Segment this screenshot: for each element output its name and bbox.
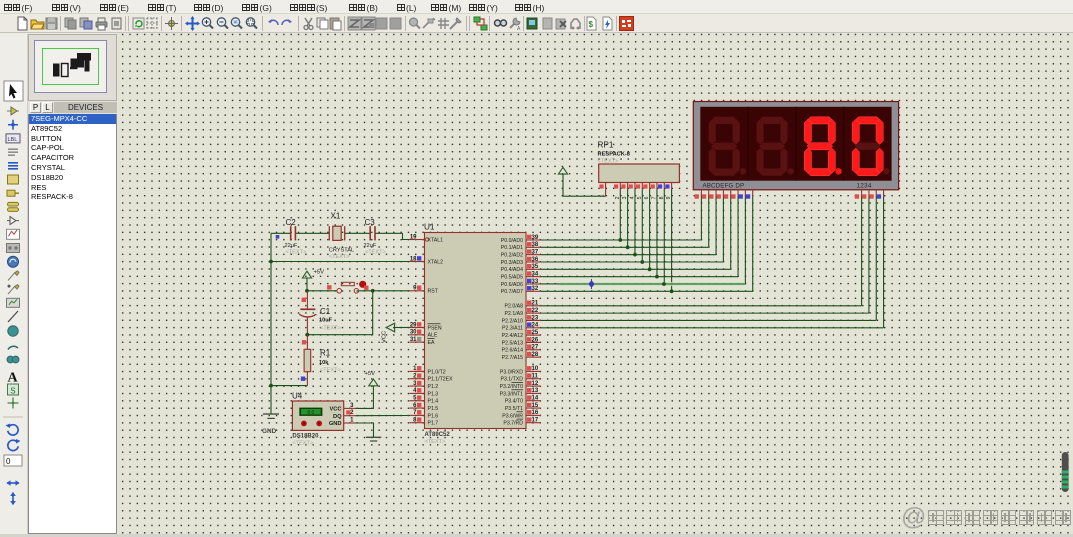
- svg-text:39: 39: [532, 235, 539, 241]
- pin 1 RP1 stub: [599, 183, 606, 198]
- pin 21 U1 right stub: [526, 301, 541, 307]
- pin 3 U4 VCC stub: [344, 403, 356, 409]
- svg-text:PSEN: PSEN: [428, 325, 442, 331]
- pin 23 U1 right stub: [526, 315, 541, 321]
- pin 2 U1 left stub: [410, 373, 425, 379]
- svg-text:P2.0/A8: P2.0/A8: [505, 304, 524, 310]
- svg-text:P3.5/T1: P3.5/T1: [505, 406, 523, 412]
- 7-segment display 7SEG-MPX4-CC frame: [693, 102, 898, 190]
- pin 13 U1 right stub: [526, 388, 541, 394]
- svg-text:S: S: [10, 386, 15, 395]
- svg-text:P1.0/T2: P1.0/T2: [428, 369, 446, 375]
- pin C display stub: [709, 190, 716, 199]
- svg-text:22uF: 22uF: [285, 243, 298, 249]
- junction RP1 pin9/P0.7: [670, 289, 674, 293]
- pin 14 U1 right stub: [526, 395, 541, 401]
- svg-text:R1: R1: [320, 349, 331, 358]
- svg-text:34: 34: [532, 271, 539, 277]
- pin 6 U1 left stub: [410, 403, 425, 409]
- svg-text:P0.2/AD2: P0.2/AD2: [501, 253, 523, 259]
- resistor pack RP1 RESPACK-8 body: [598, 141, 680, 183]
- pin 16 U1 right stub: [526, 410, 541, 416]
- junction RP1 pin2/P0.0: [618, 238, 622, 242]
- pin 2 U4 DQ stub: [344, 410, 356, 416]
- pin 27 U1 right stub: [526, 344, 541, 350]
- capacitor C1 polarized: [299, 291, 341, 335]
- svg-text:37: 37: [532, 249, 539, 255]
- junction RP1 pin3/P0.1: [626, 245, 630, 249]
- pin 33 U1 right stub: [526, 279, 541, 285]
- wire P0.3 net to segment D: [541, 190, 723, 262]
- wire RST net: [307, 290, 410, 292]
- wire P2.3 net to digit 4: [541, 197, 884, 328]
- pin B display stub: [702, 190, 709, 199]
- svg-text:12: 12: [532, 381, 539, 387]
- svg-text:P1.1/T2EX: P1.1/T2EX: [428, 377, 454, 383]
- wire XTAL1 net: [271, 233, 410, 239]
- svg-text:A: A: [8, 371, 19, 386]
- svg-text:1234: 1234: [857, 183, 873, 190]
- svg-text:27: 27: [532, 345, 539, 351]
- wire U4 GND down: [356, 423, 374, 437]
- pin digit1 display stub: [855, 190, 862, 199]
- svg-text:10: 10: [532, 366, 539, 372]
- pin E display stub: [724, 190, 731, 199]
- junction RP1 pin7/P0.5: [655, 275, 659, 279]
- svg-text:24: 24: [532, 323, 539, 329]
- svg-text:38: 38: [532, 242, 539, 248]
- svg-text:35: 35: [532, 264, 539, 270]
- svg-text:0: 0: [6, 457, 11, 466]
- pin digit2 display stub: [862, 190, 869, 199]
- wire P2.1 net to digit 2: [541, 197, 869, 314]
- svg-text:ABCDEFG DP: ABCDEFG DP: [703, 183, 745, 190]
- svg-text:<TEXT>: <TEXT>: [320, 368, 341, 374]
- svg-text:+5V: +5V: [314, 270, 325, 276]
- component capsule right edge: [1062, 452, 1069, 492]
- svg-text:P2.1/A9: P2.1/A9: [505, 311, 524, 317]
- svg-text:P3.1/TXD: P3.1/TXD: [501, 377, 524, 383]
- svg-text:10uF: 10uF: [319, 317, 333, 323]
- pin 5 RP1 stub: [636, 183, 643, 200]
- svg-text:RST: RST: [428, 289, 439, 295]
- pin 22 U1 right stub: [526, 308, 541, 314]
- svg-text:U4: U4: [292, 392, 303, 401]
- svg-text:22: 22: [532, 308, 539, 314]
- pin 18 U1 left stub: [410, 256, 425, 262]
- svg-text:LBL: LBL: [8, 137, 18, 143]
- pin 35 U1 right stub: [526, 264, 541, 270]
- wire +5V to RP1 pin1: [563, 174, 606, 196]
- pin names U1 left: [425, 237, 453, 426]
- svg-text:<TEXT>: <TEXT>: [365, 250, 386, 256]
- svg-text:U1: U1: [424, 223, 435, 232]
- node drag-handle marker on P0.6 wire: [560, 279, 745, 289]
- pin 4 RP1 stub: [629, 183, 636, 200]
- svg-text:EA: EA: [428, 340, 435, 346]
- pin 32 U1 right stub: [526, 286, 541, 292]
- junction C1/R1/branch: [306, 333, 310, 337]
- svg-text:$: $: [588, 20, 593, 29]
- wire P0.7 net to segment DP: [541, 190, 753, 292]
- pin 25 U1 right stub: [526, 330, 541, 336]
- svg-text:P3.3/INT1: P3.3/INT1: [500, 391, 523, 397]
- svg-text:18: 18: [410, 256, 417, 262]
- wire P0.1 net to segment B: [541, 190, 709, 248]
- pin 2 RP1 stub: [614, 183, 621, 200]
- junction rail/R1 bottom: [269, 384, 273, 388]
- svg-text:X1: X1: [331, 212, 341, 221]
- junction RP1 pin6/P0.4: [648, 267, 652, 271]
- pin 3 U1 left stub: [410, 381, 425, 387]
- svg-text:P2.2/A10: P2.2/A10: [502, 318, 523, 324]
- crystal X1: [329, 212, 354, 261]
- junction rail/XTAL2: [269, 260, 273, 264]
- svg-text:14: 14: [532, 396, 539, 402]
- pin digit4 display stub: [877, 190, 884, 199]
- pin 1 U4 GND stub: [344, 418, 356, 424]
- svg-text:P1.7: P1.7: [428, 421, 439, 427]
- svg-text:VCC: VCC: [329, 407, 341, 413]
- pin 11 U1 right stub: [526, 373, 541, 379]
- pin 10 U1 right stub: [526, 366, 541, 372]
- svg-text:33: 33: [532, 279, 539, 285]
- svg-text:A: A: [517, 26, 521, 31]
- pin digit3 display stub: [869, 190, 876, 199]
- wire P2.0 net to digit 1: [541, 197, 862, 306]
- svg-text:VCC: VCC: [382, 331, 388, 343]
- svg-text:P0.0/AD0: P0.0/AD0: [501, 238, 523, 244]
- svg-text:17: 17: [532, 418, 539, 424]
- pin 39 U1 right stub: [526, 235, 541, 241]
- junction RP1 pin4/P0.2: [633, 253, 637, 257]
- svg-text:28: 28: [532, 352, 539, 358]
- svg-text:P3.6/WR: P3.6/WR: [502, 413, 523, 419]
- svg-text:DQ: DQ: [333, 414, 342, 420]
- svg-text:22uF: 22uF: [364, 243, 377, 249]
- svg-text:P3.2/INT0: P3.2/INT0: [500, 384, 523, 390]
- svg-text:16: 16: [532, 410, 539, 416]
- wire R1 bottom to rail: [271, 385, 307, 387]
- svg-text:36: 36: [532, 257, 539, 263]
- svg-text:GND: GND: [262, 428, 277, 435]
- power VCC to pin 29: [382, 323, 410, 343]
- svg-text:P0.4/AD4: P0.4/AD4: [501, 267, 523, 273]
- svg-text:AT89C52: AT89C52: [425, 432, 451, 438]
- svg-text:C2: C2: [286, 218, 297, 227]
- pin A display stub: [695, 190, 702, 199]
- svg-text:13: 13: [532, 388, 539, 394]
- pin 6 RP1 stub: [643, 183, 650, 200]
- wire P0.2 net to segment C: [541, 190, 716, 255]
- IC U4 DS18B20 temperature sensor: [292, 392, 344, 447]
- pin 15 U1 right stub: [526, 403, 541, 409]
- pin 8 RP1 stub: [658, 183, 665, 200]
- svg-text:P1.5: P1.5: [428, 406, 439, 412]
- ground GND under U4: [366, 437, 381, 441]
- svg-text:P0.3/AD3: P0.3/AD3: [501, 260, 523, 266]
- svg-text:8.0: 8.0: [307, 410, 314, 416]
- svg-text:P3.0/RXD: P3.0/RXD: [500, 369, 523, 375]
- svg-text:<TEXT>: <TEXT>: [598, 159, 619, 165]
- svg-text:XTAL2: XTAL2: [428, 259, 444, 265]
- pin 7 U1 left stub: [410, 410, 425, 416]
- svg-text:XTAL1: XTAL1: [428, 237, 444, 243]
- svg-text:ALE: ALE: [428, 333, 438, 339]
- svg-text:19: 19: [410, 234, 417, 240]
- pin 9 RP1 stub: [665, 183, 672, 200]
- svg-text:RP1: RP1: [598, 141, 614, 150]
- pin 12 U1 right stub: [526, 381, 541, 387]
- svg-text:<TEXT>: <TEXT>: [320, 325, 341, 331]
- svg-text:P1.4: P1.4: [428, 399, 439, 405]
- svg-text:30: 30: [410, 330, 417, 336]
- svg-text:<TEXT>: <TEXT>: [292, 440, 313, 446]
- junction RP1 pin8/P0.6: [662, 282, 666, 286]
- resistor R1: [301, 335, 341, 386]
- wire P0.6 net to segment G: [541, 190, 745, 284]
- wire XTAL2 net: [271, 261, 410, 263]
- svg-text:RESPACK-8: RESPACK-8: [598, 152, 630, 158]
- pin 5 U1 left stub: [410, 395, 425, 401]
- wire P0.0 net to segment A: [541, 190, 701, 241]
- pin 1 U1 left stub: [410, 366, 425, 372]
- pin G display stub: [738, 190, 745, 199]
- svg-text:<TEXT>: <TEXT>: [329, 254, 350, 260]
- svg-text:<TEXT>: <TEXT>: [425, 439, 446, 445]
- svg-text:10k: 10k: [319, 360, 329, 366]
- svg-text:P1.3: P1.3: [428, 391, 439, 397]
- pin 19 U1 left stub: [410, 234, 425, 240]
- svg-text:C3: C3: [365, 218, 376, 227]
- power +5V above RST branch: [302, 270, 324, 291]
- svg-text:P3.7/RD: P3.7/RD: [503, 421, 523, 427]
- pin 28 U1 right stub: [526, 352, 541, 358]
- pin DP display stub: [746, 190, 753, 199]
- svg-text:P0.6/AD6: P0.6/AD6: [501, 282, 523, 288]
- svg-text:32: 32: [532, 286, 539, 292]
- junction +5V/RST: [305, 289, 309, 293]
- button (reset push button): [327, 281, 368, 293]
- svg-text:25: 25: [532, 330, 539, 336]
- pin 38 U1 right stub: [526, 242, 541, 248]
- svg-text:31: 31: [410, 337, 417, 343]
- pin F display stub: [731, 190, 738, 199]
- IC U1 AT89C52 microcontroller body: [424, 223, 526, 446]
- svg-text:CRYSTAL: CRYSTAL: [329, 248, 354, 254]
- pin 24 U1 right stub: [526, 322, 541, 328]
- svg-text:21: 21: [532, 301, 539, 307]
- svg-text:P2.6/A14: P2.6/A14: [502, 348, 523, 354]
- pin 7 RP1 stub: [651, 183, 658, 200]
- svg-text:23: 23: [532, 315, 539, 321]
- node blue marker near C2: [276, 235, 280, 239]
- pin 26 U1 right stub: [526, 337, 541, 343]
- 7-seg digit 4: [852, 117, 889, 176]
- pin 8 U1 left stub: [410, 417, 425, 423]
- svg-text:+5V: +5V: [365, 371, 376, 377]
- svg-text:11: 11: [532, 374, 539, 380]
- svg-text:P2.4/A12: P2.4/A12: [502, 333, 523, 339]
- pin 31 U1 left stub: [410, 337, 425, 343]
- pin D display stub: [716, 190, 723, 199]
- svg-text:P2.7/A15: P2.7/A15: [502, 355, 523, 361]
- svg-text:P2.5/A13: P2.5/A13: [502, 340, 523, 346]
- ground GND left: [262, 414, 279, 435]
- svg-text:P2.3/A11: P2.3/A11: [502, 326, 523, 332]
- pin names U1 right: [500, 238, 524, 427]
- power +5V above U4: [365, 371, 379, 386]
- junction RP1 pin5/P0.3: [640, 260, 644, 264]
- pin 4 U1 left stub: [410, 388, 425, 394]
- wire P0.5 net to segment F: [541, 190, 738, 277]
- pin 37 U1 right stub: [526, 249, 541, 255]
- pin 34 U1 right stub: [526, 271, 541, 277]
- svg-text:C1: C1: [320, 307, 331, 316]
- pin 36 U1 right stub: [526, 257, 541, 263]
- 7-seg digit 2: [756, 117, 793, 176]
- svg-text:P0.7/AD7: P0.7/AD7: [501, 289, 523, 295]
- svg-text:P0.5/AD5: P0.5/AD5: [501, 275, 523, 281]
- capacitor C3: [364, 218, 386, 256]
- svg-text:GND: GND: [329, 421, 342, 427]
- junction RST/down branch: [371, 289, 375, 293]
- svg-text:26: 26: [532, 337, 539, 343]
- capacitor C2: [285, 218, 307, 256]
- 7-seg digit 3: [804, 117, 841, 176]
- wire P0.4 net to segment E: [541, 190, 731, 270]
- svg-text:<TEXT>: <TEXT>: [286, 250, 307, 256]
- pin 30 U1 left stub: [410, 330, 425, 336]
- wire RST branch down to C1/R1 node: [307, 291, 372, 335]
- svg-text:DS18B20: DS18B20: [292, 433, 319, 439]
- svg-text:P3.4/T0: P3.4/T0: [505, 399, 523, 405]
- svg-text:P1.6: P1.6: [428, 413, 439, 419]
- pin 9 U1 left stub: [410, 286, 425, 292]
- power +5V for RP1: [558, 167, 567, 174]
- svg-text:P1.2: P1.2: [428, 384, 439, 390]
- 7-seg digit 1: [709, 117, 746, 176]
- svg-text:29: 29: [410, 322, 417, 328]
- wire P2.2 net to digit 3: [541, 197, 876, 321]
- wire U4 VCC to +5V: [356, 386, 373, 409]
- pin 3 RP1 stub: [621, 183, 628, 200]
- pin 17 U1 right stub: [526, 417, 541, 423]
- wire left rail vertical: [270, 233, 272, 414]
- svg-text:15: 15: [532, 403, 539, 409]
- pin 29 U1 left stub: [410, 322, 425, 328]
- svg-text:P0.1/AD1: P0.1/AD1: [501, 245, 523, 251]
- wire U4 DQ to U1 pin7: [356, 415, 410, 417]
